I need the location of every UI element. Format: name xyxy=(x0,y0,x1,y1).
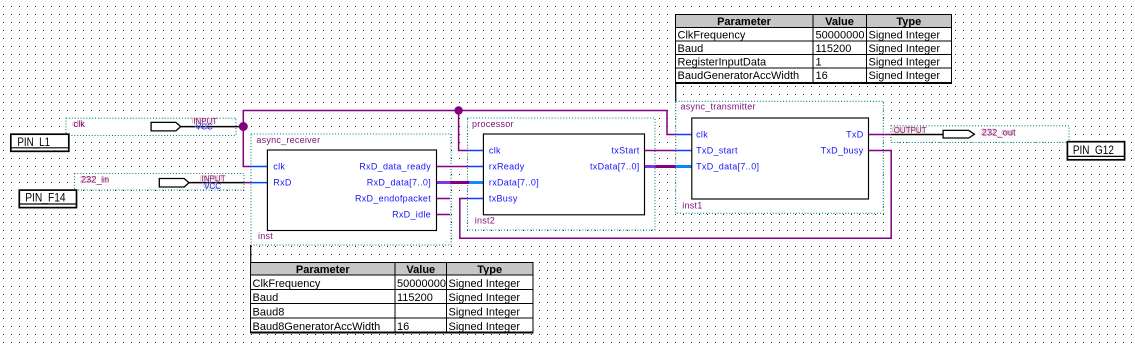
svg-text:VCC: VCC xyxy=(196,123,213,132)
svg-text:Baud: Baud xyxy=(253,292,279,304)
svg-text:Value: Value xyxy=(825,16,854,28)
svg-text:processor: processor xyxy=(472,119,514,129)
svg-text:232_out: 232_out xyxy=(982,128,1016,138)
svg-text:async_transmitter: async_transmitter xyxy=(681,101,756,111)
svg-text:RxD_data_ready: RxD_data_ready xyxy=(359,162,431,172)
svg-text:async_receiver: async_receiver xyxy=(256,135,320,145)
svg-text:Parameter: Parameter xyxy=(296,264,351,276)
svg-text:ClkFrequency: ClkFrequency xyxy=(253,278,321,290)
svg-text:TxD_start: TxD_start xyxy=(696,146,738,156)
svg-text:PIN_F14: PIN_F14 xyxy=(25,190,66,204)
svg-text:Signed Integer: Signed Integer xyxy=(449,307,521,319)
svg-text:Baud8: Baud8 xyxy=(253,307,285,319)
svg-text:VCC: VCC xyxy=(204,182,221,191)
svg-text:rxData[7..0]: rxData[7..0] xyxy=(489,178,539,188)
svg-text:232_in: 232_in xyxy=(81,175,109,185)
svg-text:PIN_L1: PIN_L1 xyxy=(17,135,50,149)
svg-text:16: 16 xyxy=(816,70,828,82)
svg-text:Signed Integer: Signed Integer xyxy=(869,30,941,42)
svg-text:OUTPUT: OUTPUT xyxy=(894,126,927,135)
svg-text:TxD: TxD xyxy=(846,130,864,140)
svg-text:Value: Value xyxy=(406,264,435,276)
svg-text:115200: 115200 xyxy=(397,292,433,304)
svg-text:Signed Integer: Signed Integer xyxy=(449,278,521,290)
svg-text:50000000: 50000000 xyxy=(816,30,865,42)
svg-text:clk: clk xyxy=(74,119,86,129)
svg-text:RxD: RxD xyxy=(273,178,292,188)
svg-text:16: 16 xyxy=(397,321,409,333)
svg-text:Signed Integer: Signed Integer xyxy=(449,292,521,304)
svg-text:inst: inst xyxy=(258,231,273,241)
svg-text:Signed Integer: Signed Integer xyxy=(449,321,521,333)
svg-text:ClkFrequency: ClkFrequency xyxy=(678,30,746,42)
svg-text:txBusy: txBusy xyxy=(489,194,518,204)
svg-text:RegisterInputData: RegisterInputData xyxy=(678,57,768,69)
svg-text:clk: clk xyxy=(273,162,285,172)
svg-text:RxD_endofpacket: RxD_endofpacket xyxy=(355,194,431,204)
svg-text:Baud: Baud xyxy=(678,43,704,55)
svg-text:Type: Type xyxy=(896,16,921,28)
svg-text:PIN_G12: PIN_G12 xyxy=(1073,143,1114,157)
svg-text:Signed Integer: Signed Integer xyxy=(869,57,941,69)
svg-text:RxD_data[7..0]: RxD_data[7..0] xyxy=(367,178,431,188)
svg-text:Signed Integer: Signed Integer xyxy=(869,43,941,55)
svg-text:TxD_busy: TxD_busy xyxy=(821,146,864,156)
svg-text:RxD_idle: RxD_idle xyxy=(392,210,431,220)
svg-text:txStart: txStart xyxy=(611,146,639,156)
svg-text:1: 1 xyxy=(816,57,822,69)
svg-text:Parameter: Parameter xyxy=(717,16,772,28)
svg-text:Signed Integer: Signed Integer xyxy=(869,70,941,82)
svg-text:Baud8GeneratorAccWidth: Baud8GeneratorAccWidth xyxy=(253,321,381,333)
svg-text:inst2: inst2 xyxy=(475,216,495,226)
svg-text:115200: 115200 xyxy=(816,43,852,55)
svg-text:txData[7..0]: txData[7..0] xyxy=(590,162,640,172)
svg-text:rxReady: rxReady xyxy=(489,162,525,172)
svg-text:TxD_data[7..0]: TxD_data[7..0] xyxy=(696,162,759,172)
svg-text:clk: clk xyxy=(696,130,708,140)
svg-text:BaudGeneratorAccWidth: BaudGeneratorAccWidth xyxy=(678,70,800,82)
svg-text:Type: Type xyxy=(477,264,502,276)
svg-text:clk: clk xyxy=(489,146,501,156)
svg-text:inst1: inst1 xyxy=(682,201,702,211)
svg-text:50000000: 50000000 xyxy=(397,278,446,290)
